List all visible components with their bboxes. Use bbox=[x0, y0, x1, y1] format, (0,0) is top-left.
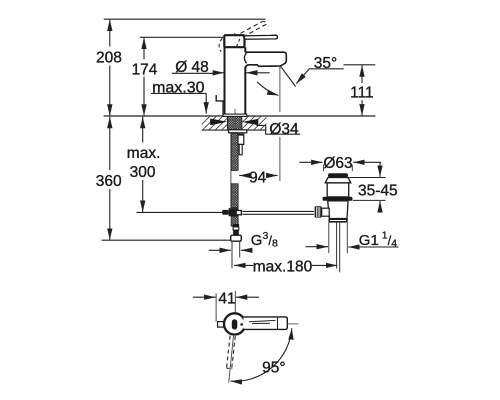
horizontal pull rod to drain bbox=[243, 210, 314, 212]
G3/8 threaded pipe walls bbox=[231, 241, 233, 268]
tee junction block bbox=[229, 208, 239, 216]
dim 111 top extension line bbox=[344, 64, 376, 66]
handle block bbox=[224, 35, 244, 47]
dim 360 vertical line with arrows bbox=[109, 117, 111, 170]
95 degree swivel arc with arrows bbox=[231, 328, 292, 381]
flexible braided hose segment C bbox=[231, 217, 238, 227]
extension line at handle top for 174 bbox=[140, 36, 224, 38]
dashed rotated handle outline left bbox=[219, 38, 222, 52]
dim max.300 bottom extension line bbox=[137, 211, 223, 213]
drain plug cap bbox=[328, 173, 348, 177]
dim 41 extension lines bbox=[215, 293, 217, 322]
dim Ø48 right arrow bbox=[246, 72, 270, 74]
dim Ø34 leader bbox=[257, 125, 301, 134]
lever rod bbox=[245, 35, 278, 39]
svg-text:35°: 35° bbox=[314, 55, 337, 72]
bottom view body circle bbox=[224, 313, 245, 334]
spout-body joint curve bbox=[244, 53, 246, 64]
svg-text:111: 111 bbox=[350, 85, 374, 102]
dim max.30 leader with down arrow bbox=[205, 93, 207, 113]
dim Ø48 underline leader bbox=[172, 72, 213, 74]
35-degree leader arrow bbox=[296, 69, 309, 84]
base plate bbox=[223, 114, 247, 116]
deck hatching left of shank bbox=[202, 116, 210, 124]
dashed rotated spout bbox=[227, 336, 231, 369]
dim 41 arrows bbox=[193, 296, 216, 298]
bottom view small dot bbox=[240, 323, 243, 326]
dim G3/8 right arrow bbox=[241, 249, 252, 251]
dim 208 vertical line with arrows bbox=[109, 20, 111, 47]
svg-text:300: 300 bbox=[130, 164, 156, 181]
tee junction left stub bbox=[222, 210, 229, 215]
drain bottom band bbox=[329, 219, 348, 223]
dim max.30 underline bbox=[151, 92, 206, 94]
bottom view spout detail strokes bbox=[249, 320, 276, 323]
deck bottom line bbox=[202, 129, 267, 131]
spout bbox=[245, 52, 286, 68]
dim 35-45 top extension line bbox=[349, 177, 386, 179]
dim max.300 vertical line with arrows bbox=[142, 117, 144, 143]
svg-text:41: 41 bbox=[218, 290, 235, 307]
svg-text:max.: max. bbox=[127, 145, 161, 162]
top extension line (lever top) bbox=[104, 18, 266, 20]
dim 35-45 bottom arrow bbox=[379, 201, 381, 213]
pull rod housing tube lower bbox=[239, 144, 242, 154]
svg-text:Ø63: Ø63 bbox=[323, 155, 352, 172]
flexible braided hose segment A bbox=[231, 133, 238, 171]
swivel arc with arrow bbox=[257, 82, 279, 96]
dim 94 arrows and label bbox=[239, 175, 249, 177]
drain knob connector bbox=[322, 208, 330, 216]
dim Ø48 left arrow bbox=[213, 72, 224, 74]
svg-text:max.180: max.180 bbox=[253, 259, 313, 276]
dim G1 1/4 right arrow with tail bbox=[348, 246, 398, 248]
drain tailpipe walls bbox=[336, 223, 338, 269]
dim Ø34 big arrows at shank bbox=[210, 119, 227, 126]
svg-text:94: 94 bbox=[249, 169, 267, 186]
deck / countertop line bbox=[104, 115, 376, 117]
bottom view spout centerline bbox=[287, 323, 298, 325]
svg-text:174: 174 bbox=[132, 62, 158, 79]
drain flange bbox=[325, 178, 351, 183]
locknut under deck bbox=[229, 130, 247, 133]
G3/8 nut bbox=[231, 235, 242, 241]
dashed rotated handle outline inside block bbox=[236, 39, 240, 48]
drain upper body bbox=[327, 183, 349, 197]
dim 35-45 bottom extension line bbox=[353, 199, 386, 201]
G1 1/4 extension lines bbox=[328, 223, 330, 254]
spout outlet centerline bbox=[279, 66, 281, 112]
pull rod housing tube upper bbox=[238, 134, 244, 144]
svg-text:360: 360 bbox=[96, 173, 122, 190]
pop-up rod knob at left of body bbox=[216, 95, 224, 101]
svg-text:208: 208 bbox=[96, 49, 122, 66]
dim max.180 line with outward arrows bbox=[234, 264, 253, 266]
bottom view slot bbox=[232, 319, 238, 329]
drain lower body bbox=[328, 201, 348, 219]
flexible braided hose segment B bbox=[231, 184, 238, 208]
dim 360 bottom extension line bbox=[102, 239, 231, 241]
svg-text:35-45: 35-45 bbox=[358, 183, 398, 200]
rotated position centerline bbox=[229, 336, 234, 383]
faucet body bbox=[225, 47, 246, 114]
dim G1 1/4 left arrow bbox=[306, 246, 329, 248]
flexible hose left outline bbox=[230, 133, 232, 208]
dim Ø63 left arrow bbox=[299, 161, 322, 163]
svg-text:95°: 95° bbox=[262, 359, 285, 376]
dim G3/8 left arrow bbox=[209, 249, 231, 251]
bottom view left stub bbox=[218, 322, 225, 328]
drain knurled knob bbox=[315, 206, 322, 217]
dim Ø63 extension ticks bbox=[322, 165, 324, 172]
svg-text:Ø34: Ø34 bbox=[269, 121, 299, 138]
dim 111 vertical line with arrows bbox=[361, 65, 363, 83]
hose end fitting above G3/8 nut bbox=[233, 224, 239, 227]
35-degree label underline bbox=[309, 68, 343, 70]
dim Ø63 right arrow with tail bbox=[353, 161, 381, 163]
threaded shank through deck (cross-hatched) bbox=[227, 116, 241, 130]
dashed lever in raised position bbox=[241, 21, 263, 33]
dim 35-45 top arrow bbox=[379, 162, 381, 177]
dim 174 vertical line with arrows bbox=[143, 38, 145, 60]
faucet centerline bbox=[234, 109, 236, 133]
drain rosette (black band) bbox=[323, 197, 353, 201]
water stream 35-degree line bbox=[280, 66, 295, 87]
bottom view spout bbox=[244, 317, 288, 330]
